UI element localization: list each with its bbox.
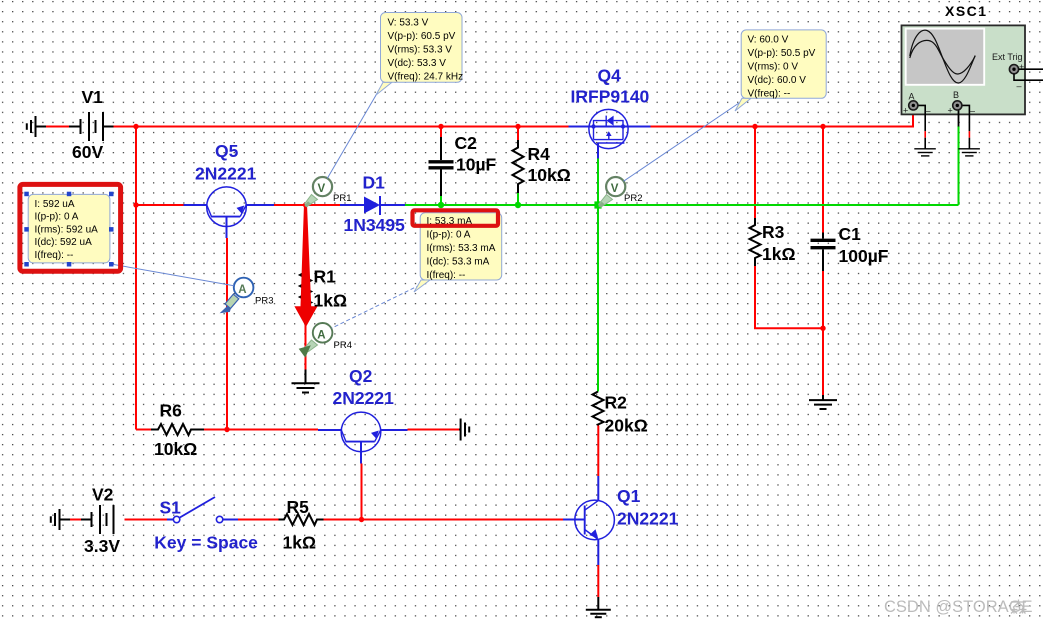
svg-text:R1: R1 — [314, 267, 337, 287]
svg-text:Q4: Q4 — [598, 66, 622, 86]
svg-text:10µF: 10µF — [456, 155, 497, 175]
wire node down to R1 — [305, 205, 307, 263]
wire top bus left (ground to battery) — [36, 126, 47, 128]
svg-text:–: – — [1017, 81, 1022, 91]
svg-text:I(freq): --: I(freq): -- — [35, 250, 74, 261]
svg-text:R2: R2 — [605, 393, 628, 413]
wire C1 branch top — [822, 127, 824, 233]
junction node PR1 — [303, 202, 308, 207]
svg-text:PR1: PR1 — [333, 193, 351, 204]
transistor Q1 — [563, 476, 614, 565]
svg-text:V(freq): 24.7 kHz: V(freq): 24.7 kHz — [388, 71, 464, 82]
measurement box PR2 — [735, 30, 826, 111]
svg-text:A: A — [317, 329, 325, 341]
ground under R1 — [292, 370, 320, 393]
svg-text:3.3V: 3.3V — [84, 536, 120, 556]
svg-text:+: + — [903, 106, 908, 116]
wire Q2 right to ground — [408, 429, 460, 431]
wire green R2 top — [597, 205, 599, 392]
svg-text:–: – — [970, 106, 975, 116]
measurement box PR4 — [414, 213, 502, 292]
junction dot green C2 — [438, 202, 444, 208]
svg-text:A: A — [238, 284, 246, 296]
svg-text:I(p-p): 0 A: I(p-p): 0 A — [427, 229, 471, 240]
selection border red — [20, 184, 121, 271]
svg-text:+: + — [948, 106, 953, 116]
capacitor C2 — [429, 137, 454, 196]
junction dot R6 Q5 — [224, 427, 229, 432]
svg-text:Q5: Q5 — [215, 141, 239, 161]
wire R5 to junction — [324, 519, 362, 521]
terminal B wires — [957, 105, 969, 131]
svg-text:1N3495: 1N3495 — [344, 215, 406, 235]
wire Q1 emitter to ground — [597, 565, 599, 597]
svg-text:C1: C1 — [839, 224, 862, 244]
svg-text:2N2221: 2N2221 — [195, 164, 257, 184]
measurement box PR1 — [376, 13, 463, 96]
oscilloscope XSC1 body — [902, 25, 1026, 114]
switch S1 — [167, 497, 238, 523]
wire R2 bottom to Q1 collector — [597, 426, 599, 477]
ground under C1 — [809, 395, 837, 409]
leader line box1 to PR1 — [327, 90, 379, 178]
wire scope B stub — [958, 109, 960, 127]
ground left of V2 — [51, 509, 60, 530]
svg-text:V(p-p): 60.5 pV: V(p-p): 60.5 pV — [388, 31, 456, 42]
svg-text:A: A — [909, 92, 915, 102]
junction dot green gate node — [594, 201, 601, 208]
junction dot R3 C1 bottom — [820, 326, 825, 331]
transistor Q5 — [184, 187, 275, 238]
ground under Q1 — [586, 597, 611, 617]
red current arrow at R1 — [294, 207, 317, 327]
wire left vertical x136 — [135, 127, 137, 430]
transistor Q2 — [318, 412, 408, 463]
wire bottom row junction to Q1 base — [362, 519, 564, 521]
svg-text:XSC1: XSC1 — [945, 3, 988, 19]
resistor R1 — [300, 263, 311, 314]
junction dot R5 Q2 — [359, 517, 364, 522]
wire Q5 collector down x227 — [226, 238, 228, 430]
MOSFET Q4 — [569, 109, 651, 158]
svg-text:V(freq): --: V(freq): -- — [748, 89, 791, 100]
svg-text:–: – — [926, 106, 931, 116]
svg-text:1kΩ: 1kΩ — [314, 291, 348, 311]
wire C1 bottom to ground — [822, 250, 824, 395]
resistor R6 — [151, 424, 204, 435]
svg-text:PR4: PR4 — [334, 340, 352, 351]
oscilloscope waveform B — [910, 40, 975, 74]
wire R4 branch top — [517, 127, 519, 141]
svg-text:R3: R3 — [762, 222, 785, 242]
wire V2 to switch — [125, 519, 168, 521]
svg-text:R6: R6 — [160, 401, 183, 421]
svg-text:100µF: 100µF — [839, 246, 889, 266]
wire green C2 bottom — [440, 196, 442, 205]
svg-text:1kΩ: 1kΩ — [283, 533, 317, 553]
junction dot R3 top — [752, 124, 757, 129]
wire Q5 emitter to node — [274, 204, 340, 206]
svg-text:D1: D1 — [363, 173, 386, 193]
resistor R5 — [279, 514, 324, 525]
svg-text:V(p-p): 50.5 pV: V(p-p): 50.5 pV — [748, 48, 816, 59]
svg-text:60V: 60V — [72, 142, 103, 162]
svg-text:V: V — [318, 183, 326, 195]
leader line box3 to PR4 — [332, 285, 421, 328]
resistor R3 — [750, 218, 761, 266]
wire Q5 base feed left — [136, 204, 184, 206]
terminal A wires — [913, 105, 925, 131]
svg-text:C2: C2 — [455, 133, 478, 153]
svg-text:2N2221: 2N2221 — [617, 509, 679, 529]
wire C2 branch top — [440, 127, 442, 138]
Ext trig wires — [1019, 68, 1043, 70]
wire R3 branch top — [754, 127, 756, 219]
svg-text:I(freq): --: I(freq): -- — [427, 270, 466, 281]
selection handles — [24, 192, 113, 267]
wire green Q4 gate — [597, 158, 599, 205]
junction dot C2 top — [438, 124, 443, 129]
svg-text:1kΩ: 1kΩ — [762, 244, 796, 264]
junction dot battery — [133, 124, 138, 129]
oscilloscope screen — [906, 29, 985, 85]
wire top bus (Q4 to scope A corner) — [651, 126, 915, 128]
probe PR2 — [598, 177, 625, 208]
svg-text:I(rms): 592 uA: I(rms): 592 uA — [35, 224, 99, 235]
svg-text:R4: R4 — [528, 144, 551, 164]
svg-text:20kΩ: 20kΩ — [605, 416, 648, 436]
terminal A — [909, 101, 918, 110]
svg-text:V(rms): 0 V: V(rms): 0 V — [748, 62, 799, 73]
svg-text:PR3: PR3 — [255, 296, 273, 307]
measurement box PR3 (selected) — [28, 194, 110, 263]
leader line box2 to PR2 — [624, 103, 739, 181]
svg-text:B: B — [953, 90, 959, 100]
svg-text:2N2221: 2N2221 — [333, 388, 395, 408]
wire Q2 base down — [361, 464, 363, 521]
wire scope A drop — [912, 109, 914, 128]
capacitor C1 — [811, 233, 836, 272]
svg-text:V: 60.0 V: V: 60.0 V — [748, 35, 789, 46]
wire R6 row left — [136, 429, 151, 431]
junction dot Q5 base — [133, 202, 138, 207]
svg-text:+: + — [1019, 62, 1024, 72]
svg-text:V2: V2 — [92, 485, 114, 505]
svg-text:I(dc): 592 uA: I(dc): 592 uA — [35, 237, 93, 248]
wire green R4 bottom — [517, 193, 519, 205]
svg-text:I(dc): 53.3 mA: I(dc): 53.3 mA — [427, 256, 490, 267]
wire battery V1 to junction — [104, 126, 114, 128]
svg-text:V(rms): 53.3 V: V(rms): 53.3 V — [388, 44, 453, 55]
svg-text:IRFP9140: IRFP9140 — [571, 87, 650, 107]
wire R6 to junction to Q2 — [204, 429, 318, 431]
ground under scope A — [914, 149, 936, 156]
ground under scope B — [958, 149, 980, 156]
terminal Ext — [1009, 65, 1018, 74]
svg-text:10kΩ: 10kΩ — [154, 439, 197, 459]
resistor R4 — [513, 140, 524, 193]
junction dot R4 top — [515, 124, 520, 129]
watermark CJK glyph — [1011, 600, 1027, 614]
svg-text:V: V — [611, 183, 619, 195]
wire switch to R5 — [238, 519, 279, 521]
terminal B — [953, 101, 962, 110]
svg-text:V: 53.3 V: V: 53.3 V — [388, 17, 429, 28]
svg-text:Key = Space: Key = Space — [154, 533, 258, 553]
leader line selected box to PR3 — [111, 264, 234, 286]
wire R3 bottom corner — [755, 266, 824, 328]
svg-text:Q1: Q1 — [617, 486, 641, 506]
svg-text:R5: R5 — [287, 497, 310, 517]
wire green scope B vertical — [958, 126, 960, 205]
probe PR4 — [299, 323, 333, 358]
svg-text:I(rms): 53.3 mA: I(rms): 53.3 mA — [427, 243, 496, 254]
ground right of Q2 — [459, 419, 469, 441]
svg-text:Ext Trig: Ext Trig — [992, 52, 1023, 62]
wire ground to V2 — [60, 519, 71, 521]
wire green output net horizontal — [405, 204, 959, 206]
junction dot green R4 — [515, 202, 521, 208]
probe PR3 — [220, 278, 254, 314]
junction dot C1 top — [820, 124, 825, 129]
red highlight on first line of box PR4 — [413, 210, 499, 226]
battery V2 — [92, 505, 114, 534]
svg-text:I: 592 uA: I: 592 uA — [35, 199, 75, 210]
battery V1 — [81, 112, 104, 141]
svg-text:I(p-p): 0 A: I(p-p): 0 A — [35, 212, 79, 223]
svg-text:CSDN @STORAGE: CSDN @STORAGE — [884, 598, 1032, 616]
svg-text:V1: V1 — [82, 87, 104, 107]
diode D1 — [340, 196, 405, 215]
svg-text:10kΩ: 10kΩ — [528, 165, 571, 185]
svg-text:S1: S1 — [160, 498, 182, 518]
ground left of V1 — [27, 116, 36, 137]
svg-text:PR2: PR2 — [624, 193, 642, 204]
wire R1 bottom to ground — [305, 314, 307, 370]
svg-text:V(dc): 60.0 V: V(dc): 60.0 V — [748, 75, 807, 86]
svg-text:Q2: Q2 — [349, 366, 373, 386]
svg-text:V(dc): 53.3 V: V(dc): 53.3 V — [388, 58, 447, 69]
resistor R2 — [593, 392, 604, 426]
wire top bus main (junction to Q4) — [136, 126, 569, 128]
probe PR1 — [305, 177, 333, 207]
oscilloscope waveform A — [910, 30, 975, 83]
